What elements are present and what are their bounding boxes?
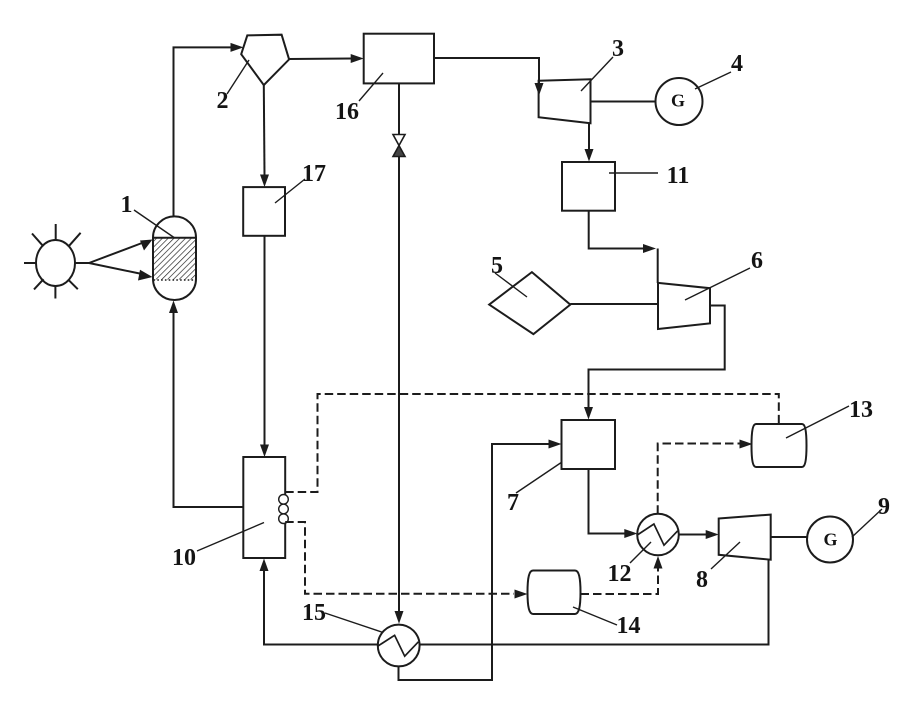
- label 10 with leader: [172, 523, 264, 572]
- svg-text:15: 15: [302, 600, 326, 626]
- dashed wire: box 10 coil lower tap to tank 14 (arrow): [285, 522, 527, 599]
- svg-text:16: 16: [335, 99, 359, 125]
- svg-text:13: 13: [849, 397, 873, 423]
- wire: box 7 to heat exchanger 12 (arrow): [589, 469, 638, 538]
- wire: box 16 to turbine 3 (arrow down): [434, 58, 544, 96]
- svg-text:12: 12: [608, 561, 632, 587]
- wire: compressor 6 outlet down/left to box 7 (arrow): [584, 306, 725, 420]
- wire: box 10 recycle left and up to vessel 1 bottom (arrow): [169, 301, 243, 508]
- label 16 with leader: [335, 73, 383, 125]
- svg-text:8: 8: [696, 567, 708, 593]
- valve on steam line: [393, 135, 405, 157]
- wire: cyclone 2 to box 16 (arrow): [289, 54, 364, 63]
- svg-text:4: 4: [731, 51, 743, 77]
- dashed wire: HX 12 top to tank 13 left (arrow): [658, 440, 753, 514]
- svg-text:3: 3: [612, 36, 624, 62]
- wire: turbine 3 shaft to generator 4: [591, 101, 656, 103]
- label 5 with leader: [491, 253, 527, 297]
- sun (solar source): [24, 224, 89, 299]
- wire: diamond 5 to compressor 6: [570, 303, 658, 305]
- wire: HX 12 to turbine 8 (arrow): [679, 530, 719, 539]
- storage tank 13: [752, 424, 807, 467]
- wire: box 11 down/right to compressor 6 (arrow): [589, 211, 658, 283]
- box 11: [562, 162, 615, 211]
- svg-text:6: 6: [751, 248, 763, 274]
- label 7 with leader: [507, 462, 562, 516]
- label 14 with leader: [573, 607, 641, 639]
- steam turbine 3: [539, 79, 591, 123]
- label 12 with leader: [608, 542, 652, 587]
- wire: box 16 steam line down through valve to HX 15 (arrow): [395, 83, 404, 623]
- svg-text:7: 7: [507, 490, 519, 516]
- label 15 with leader: [302, 600, 383, 633]
- label 13 with leader: [786, 397, 873, 438]
- wire: cyclone 2 down to box 17 (arrow): [260, 85, 269, 187]
- compressor 6: [658, 283, 710, 329]
- dashed wire: tank 14 to HX 12 bottom (arrow up): [581, 556, 663, 594]
- svg-text:17: 17: [302, 161, 326, 187]
- gas turbine 8: [719, 515, 771, 560]
- heat exchanger 15: [378, 625, 420, 667]
- box 10: [243, 457, 285, 558]
- svg-text:10: 10: [172, 545, 196, 571]
- wire: turbine 8 exhaust down and left through HX 15 to box 10 bottom (arrow): [260, 559, 769, 645]
- heat exchanger 12: [637, 514, 679, 556]
- svg-text:9: 9: [878, 494, 890, 520]
- label 11 with leader: [609, 163, 689, 189]
- box 17: [243, 187, 285, 236]
- label 17 with leader: [275, 161, 326, 203]
- wire: sun ray arrow to vessel 1 lower: [89, 263, 153, 281]
- wire: box 17 down to box 10 (arrow): [260, 236, 269, 457]
- dashed wire: box 10 coil upper tap to tank 13 top: [285, 394, 779, 492]
- svg-text:14: 14: [617, 613, 641, 639]
- coil inside box 10: [279, 495, 289, 524]
- label 1 with leader: [121, 192, 175, 238]
- box 7: [562, 420, 616, 469]
- label 8 with leader: [696, 542, 740, 593]
- wire: turbine 8 shaft to generator 9: [771, 536, 807, 538]
- svg-text:G: G: [671, 91, 685, 111]
- storage tank 14: [528, 571, 581, 615]
- wire: turbine 3 to box 11 (arrow down): [585, 123, 594, 162]
- svg-text:11: 11: [667, 163, 690, 189]
- label 4 with leader: [695, 51, 743, 89]
- wire: sun ray arrow to vessel 1 upper: [89, 240, 153, 264]
- reactor vessel 1: [153, 216, 196, 300]
- label 2 with leader: [217, 60, 250, 114]
- air inlet diamond 5: [489, 272, 570, 334]
- cyclone separator 2: [241, 35, 289, 85]
- label 9 with leader: [852, 494, 890, 537]
- wire: HX15 bottom loop to box 7 left (arrow): [399, 440, 562, 681]
- label 3 with leader: [581, 36, 624, 91]
- box 16: [364, 34, 434, 84]
- svg-text:G: G: [823, 530, 837, 550]
- svg-text:2: 2: [217, 88, 229, 114]
- wire: vessel 1 top up and over to cyclone 2 (arrow): [174, 43, 244, 217]
- label 6 with leader: [685, 248, 763, 300]
- svg-text:1: 1: [121, 192, 133, 218]
- generator G 4: [656, 78, 703, 125]
- generator G 9: [807, 517, 853, 563]
